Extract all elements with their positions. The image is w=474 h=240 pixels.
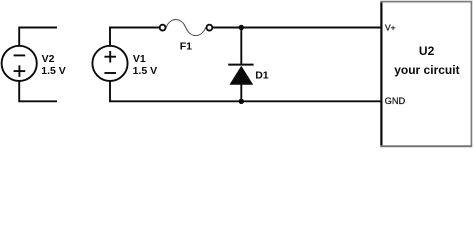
svg-text:GND: GND xyxy=(385,96,406,106)
voltage source V2 xyxy=(2,46,37,81)
wire V2 bottom xyxy=(19,81,57,101)
wire V1 bottom to GND rail xyxy=(110,81,382,101)
node junction top xyxy=(239,25,244,30)
svg-text:F1: F1 xyxy=(180,40,192,52)
wire V1 top xyxy=(110,28,159,46)
svg-text:V1: V1 xyxy=(133,53,146,65)
wire fuse to U2 V+ xyxy=(213,27,382,29)
voltage source V1 xyxy=(92,46,127,81)
wire diode anode to GND rail xyxy=(240,84,242,101)
svg-text:your circuit: your circuit xyxy=(394,63,459,77)
fuse F1 xyxy=(160,20,213,36)
node junction bottom xyxy=(239,99,244,104)
svg-text:V+: V+ xyxy=(385,22,396,32)
svg-text:1.5 V: 1.5 V xyxy=(133,65,158,77)
svg-text:D1: D1 xyxy=(255,69,269,81)
svg-text:1.5 V: 1.5 V xyxy=(41,65,66,77)
svg-text:U2: U2 xyxy=(419,44,435,58)
IC U2 box xyxy=(380,2,472,147)
svg-text:V2: V2 xyxy=(42,53,55,65)
diode D1 xyxy=(228,65,253,85)
wire V2 top xyxy=(19,28,57,46)
wire junction to diode cathode xyxy=(240,28,242,65)
